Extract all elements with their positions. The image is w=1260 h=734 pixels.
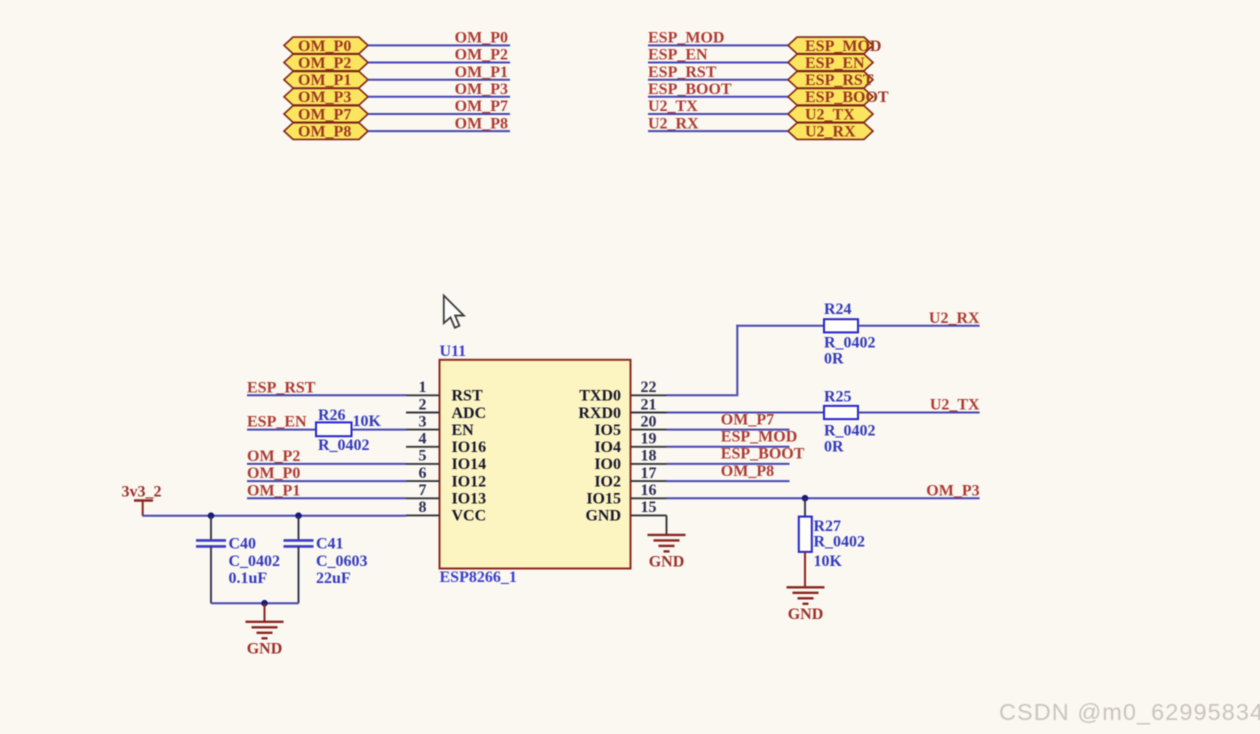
svg-text:ESP_MOD: ESP_MOD xyxy=(805,38,881,55)
svg-text:ESP_RST: ESP_RST xyxy=(805,72,874,89)
wire OM_P3 xyxy=(368,96,510,98)
svg-text:OM_P1: OM_P1 xyxy=(455,64,508,81)
wire ESP_MOD xyxy=(648,44,788,46)
pin 5 IO14 xyxy=(406,448,486,474)
pin 17 IO2 xyxy=(594,465,666,491)
wire pin21 RXD0 xyxy=(667,412,825,414)
svg-text:IO0: IO0 xyxy=(594,456,621,473)
resistor R25 xyxy=(824,389,876,440)
svg-text:OM_P8: OM_P8 xyxy=(455,115,508,132)
port OM_P3 (top-left) xyxy=(284,89,368,107)
wire pin22 TXD0 xyxy=(667,394,737,396)
svg-text:R_0402: R_0402 xyxy=(824,422,876,439)
pin 15 GND xyxy=(585,499,666,525)
svg-text:R_0402: R_0402 xyxy=(824,334,876,351)
pin 21 RXD0 xyxy=(578,396,666,422)
resistor R26 xyxy=(316,407,370,454)
svg-text:GND: GND xyxy=(585,508,621,525)
gnd lead (caps) xyxy=(264,603,266,621)
svg-text:IO16: IO16 xyxy=(452,439,487,456)
svg-text:8: 8 xyxy=(419,499,427,516)
wire OM_P7 xyxy=(667,429,790,431)
pin 18 IO0 xyxy=(594,448,666,474)
svg-text:IO15: IO15 xyxy=(586,491,621,508)
svg-text:5: 5 xyxy=(419,448,427,465)
svg-text:IO13: IO13 xyxy=(452,491,487,508)
svg-text:4: 4 xyxy=(419,431,427,448)
svg-text:R_0402: R_0402 xyxy=(814,534,866,551)
svg-text:VCC: VCC xyxy=(452,508,487,525)
junction node VCC/C40 xyxy=(208,512,215,519)
wire OM_P7 xyxy=(368,113,510,115)
junction node cap-gnd xyxy=(261,600,268,607)
svg-text:OM_P3: OM_P3 xyxy=(926,482,979,499)
svg-text:C_0402: C_0402 xyxy=(229,553,281,570)
svg-text:ESP_RST: ESP_RST xyxy=(648,64,717,81)
svg-text:20: 20 xyxy=(641,413,657,430)
svg-text:EN: EN xyxy=(452,422,475,439)
svg-text:19: 19 xyxy=(641,431,657,448)
wire OM_P1 to pin7 xyxy=(247,497,406,499)
svg-text:2: 2 xyxy=(419,396,427,413)
svg-text:6: 6 xyxy=(419,465,427,482)
svg-text:OM_P7: OM_P7 xyxy=(298,106,351,123)
svg-text:U2_RX: U2_RX xyxy=(805,124,856,141)
svg-text:R26: R26 xyxy=(318,407,346,424)
svg-text:OM_P7: OM_P7 xyxy=(721,411,774,428)
port OM_P2 (top-left) xyxy=(284,54,368,72)
svg-text:3: 3 xyxy=(419,413,427,430)
port OM_P1 (top-left) xyxy=(284,71,368,89)
watermark CSDN xyxy=(999,699,1260,726)
junction node VCC/C41 xyxy=(295,512,302,519)
svg-text:OM_P8: OM_P8 xyxy=(721,463,774,480)
svg-text:OM_P8: OM_P8 xyxy=(298,124,351,141)
svg-text:0R: 0R xyxy=(824,438,844,455)
svg-text:ESP_EN: ESP_EN xyxy=(247,414,307,431)
junction node R27 xyxy=(802,495,809,502)
svg-text:RXD0: RXD0 xyxy=(578,405,621,422)
svg-text:16: 16 xyxy=(641,482,657,499)
svg-text:ESP_RST: ESP_RST xyxy=(247,379,316,396)
svg-text:R25: R25 xyxy=(824,389,852,406)
wire junction to R27 xyxy=(804,498,806,516)
port OM_P7 (top-left) xyxy=(284,106,368,124)
wire ESP_EN to R26 xyxy=(247,429,316,431)
svg-text:U2_TX: U2_TX xyxy=(805,106,855,123)
wire capacitor bottoms xyxy=(211,602,299,604)
wire ESP_EN xyxy=(648,62,788,64)
svg-text:OM_P0: OM_P0 xyxy=(455,30,508,47)
svg-text:IO5: IO5 xyxy=(594,422,621,439)
svg-text:0.1uF: 0.1uF xyxy=(229,570,268,587)
svg-text:ESP_EN: ESP_EN xyxy=(648,47,708,64)
port OM_P8 (top-left) xyxy=(284,123,368,141)
pin 2 ADC xyxy=(406,396,486,422)
svg-text:U2_TX: U2_TX xyxy=(648,98,698,115)
svg-text:C40: C40 xyxy=(229,536,257,553)
svg-text:GND: GND xyxy=(247,640,283,657)
svg-text:OM_P1: OM_P1 xyxy=(298,72,351,89)
svg-text:U2_TX: U2_TX xyxy=(930,397,980,414)
svg-text:U2_RX: U2_RX xyxy=(929,310,980,327)
svg-text:18: 18 xyxy=(641,448,657,465)
wire OM_P2 xyxy=(368,62,510,64)
svg-text:7: 7 xyxy=(419,482,427,499)
pin 19 IO4 xyxy=(594,431,666,457)
power symbol 3v3_2 xyxy=(122,484,162,516)
svg-text:IO2: IO2 xyxy=(594,473,621,490)
svg-text:10K: 10K xyxy=(353,413,382,430)
pin 4 IO16 xyxy=(406,431,486,457)
svg-text:15: 15 xyxy=(641,499,657,516)
capacitor C40 xyxy=(196,516,280,604)
port OM_P0 (top-left) xyxy=(284,37,368,55)
svg-text:3v3_2: 3v3_2 xyxy=(122,484,162,501)
wire R24 to U2_RX xyxy=(858,325,980,327)
resistor R24 xyxy=(824,301,876,352)
svg-text:RST: RST xyxy=(452,388,483,405)
wire OM_P8 xyxy=(667,480,790,482)
svg-text:C_0603: C_0603 xyxy=(316,553,368,570)
wire ESP_BOOT xyxy=(648,96,788,98)
svg-text:ESP8266_1: ESP8266_1 xyxy=(440,569,517,586)
wire OM_P0 to pin6 xyxy=(247,480,406,482)
svg-text:ESP_EN: ESP_EN xyxy=(805,55,865,72)
wire U2_RX xyxy=(648,130,788,132)
svg-text:22: 22 xyxy=(641,379,657,396)
pin 22 TXD0 xyxy=(579,379,666,405)
port ESP_BOOT (top-right) xyxy=(788,89,889,107)
pin 8 VCC xyxy=(406,499,486,525)
svg-text:21: 21 xyxy=(641,396,657,413)
svg-text:OM_P2: OM_P2 xyxy=(247,448,300,465)
svg-text:OM_P0: OM_P0 xyxy=(298,38,351,55)
svg-text:IO12: IO12 xyxy=(452,473,487,490)
wire OM_P8 xyxy=(368,130,510,132)
svg-text:GND: GND xyxy=(649,553,685,570)
port ESP_EN (top-right) xyxy=(788,54,873,72)
wire ESP_RST to pin1 xyxy=(247,394,406,396)
svg-text:OM_P1: OM_P1 xyxy=(247,482,300,499)
port ESP_MOD (top-right) xyxy=(788,37,881,55)
ground (R27) xyxy=(787,587,825,623)
wire riser TXD0 xyxy=(736,325,738,397)
wire OM_P1 xyxy=(368,79,510,81)
wire to R24 xyxy=(736,325,824,327)
svg-text:R24: R24 xyxy=(824,301,852,318)
svg-text:ESP_MOD: ESP_MOD xyxy=(721,429,797,446)
pin 6 IO12 xyxy=(406,465,486,491)
wire OM_P2 to pin5 xyxy=(247,463,406,465)
svg-text:R_0402: R_0402 xyxy=(318,437,370,454)
svg-text:OM_P3: OM_P3 xyxy=(455,81,508,98)
pin 1 RST xyxy=(406,379,483,405)
svg-text:1: 1 xyxy=(419,379,427,396)
svg-text:GND: GND xyxy=(788,606,824,623)
ground (pin15) xyxy=(648,535,686,571)
svg-text:10K: 10K xyxy=(814,553,843,570)
wire pin15 GND elbow xyxy=(666,515,668,534)
ground (C40/C41) xyxy=(246,622,284,658)
resistor R27 xyxy=(799,517,865,552)
svg-text:TXD0: TXD0 xyxy=(579,388,621,405)
port U2_TX (top-right) xyxy=(788,106,873,124)
svg-text:IO14: IO14 xyxy=(452,456,487,473)
wire OM_P0 xyxy=(368,44,510,46)
svg-text:R27: R27 xyxy=(814,518,842,535)
svg-text:22uF: 22uF xyxy=(316,570,351,587)
wire ESP_BOOT xyxy=(667,463,790,465)
pin 16 IO15 xyxy=(586,482,666,508)
svg-text:ESP_BOOT: ESP_BOOT xyxy=(648,81,732,98)
svg-text:OM_P7: OM_P7 xyxy=(455,98,508,115)
svg-text:ADC: ADC xyxy=(452,405,487,422)
port U2_RX (top-right) xyxy=(788,123,873,141)
svg-text:U11: U11 xyxy=(440,343,467,360)
svg-text:IO4: IO4 xyxy=(594,439,621,456)
pin 20 IO5 xyxy=(594,413,666,439)
wire R26 to pin3 xyxy=(352,429,407,431)
capacitor C41 xyxy=(284,516,368,604)
svg-text:17: 17 xyxy=(641,465,657,482)
svg-text:0R: 0R xyxy=(824,350,844,367)
IC U11 ESP8266_1 body xyxy=(440,343,631,586)
pin 7 IO13 xyxy=(406,482,486,508)
svg-text:OM_P2: OM_P2 xyxy=(298,55,351,72)
mouse cursor xyxy=(444,296,464,328)
svg-text:ESP_BOOT: ESP_BOOT xyxy=(805,89,889,106)
svg-text:OM_P0: OM_P0 xyxy=(247,465,300,482)
port ESP_RST (top-right) xyxy=(788,71,874,89)
svg-text:ESP_MOD: ESP_MOD xyxy=(648,30,724,47)
wire ESP_MOD xyxy=(667,446,790,448)
svg-text:OM_P3: OM_P3 xyxy=(298,89,351,106)
svg-text:U2_RX: U2_RX xyxy=(648,115,699,132)
pin 3 EN xyxy=(406,413,474,439)
wire R25 to U2_TX xyxy=(858,412,980,414)
gnd lead (R27) xyxy=(804,552,806,587)
wire ESP_RST xyxy=(648,79,788,81)
wire U2_TX xyxy=(648,113,788,115)
svg-text:OM_P2: OM_P2 xyxy=(455,47,508,64)
svg-text:ESP_BOOT: ESP_BOOT xyxy=(721,446,805,463)
wire VCC rail to pin8 xyxy=(142,515,406,517)
wire pin16 IO15 to OM_P3 xyxy=(667,497,980,499)
svg-text:C41: C41 xyxy=(316,536,344,553)
